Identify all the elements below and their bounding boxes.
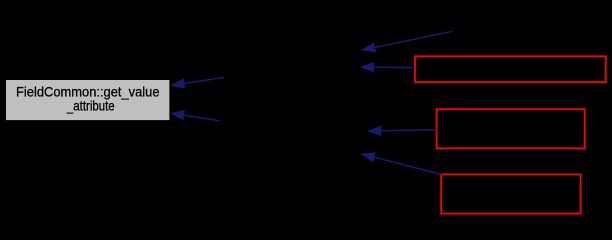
edge E2: M2 to U1 [170, 110, 220, 121]
edge ED: R3 to M2 [360, 152, 441, 174]
node M1: invisible middle caller (black on black) [225, 58, 361, 84]
node M2: invisible middle caller (black on black) [220, 115, 365, 155]
node R3: red truncated box (bottom right) [441, 174, 580, 213]
node R1: red truncated box (top right) [415, 56, 606, 82]
node U1: FieldCommon::get_value_attribute (gray filled box) [5, 79, 170, 121]
node R2: red truncated box (middle right) [437, 109, 585, 148]
edge EC: R2 to M2 [367, 126, 437, 136]
node T1: invisible top-right caller (black on black) [453, 5, 603, 31]
edge EB: R1 to M1 [360, 62, 415, 72]
svg-text:FieldCommon::get_value: FieldCommon::get_value [16, 84, 160, 99]
edge E1: M1 to U1 [170, 77, 224, 88]
svg-text:_attribute: _attribute [66, 99, 115, 114]
edge EA: T1 to M1 [361, 31, 453, 52]
